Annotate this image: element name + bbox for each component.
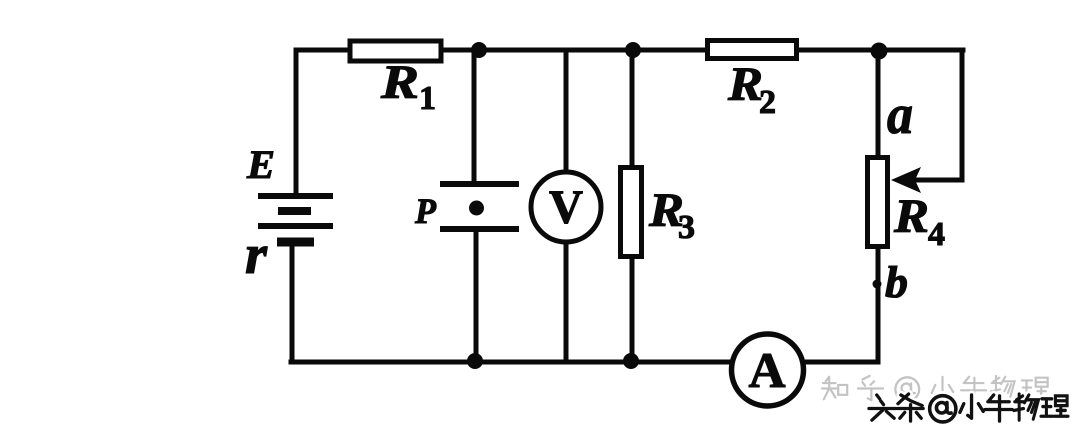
node top after R1	[471, 42, 487, 58]
svg-text:r: r	[245, 224, 268, 286]
svg-text:V: V	[549, 181, 583, 234]
wire capacitor branch upper	[472, 50, 477, 181]
capacitor P plates	[440, 184, 519, 229]
watermark gray: 知乎 @小牛物理	[822, 376, 1049, 401]
node b dot	[873, 280, 882, 289]
svg-text:R: R	[893, 190, 929, 243]
rheostat wiper arrowhead	[891, 167, 921, 193]
voltmeter V	[531, 172, 601, 242]
svg-text:A: A	[749, 342, 786, 398]
watermark black: 头条 @小牛物理	[869, 394, 1068, 422]
resistor R4 (rheostat track)	[868, 158, 888, 247]
node top right corner	[871, 43, 888, 60]
wire left vertical from top bus to battery	[294, 50, 299, 193]
wire R3 branch	[630, 50, 635, 362]
svg-text:a: a	[887, 84, 913, 146]
battery E,r (two cells)	[258, 196, 333, 242]
capacitor moving-plate dot	[469, 201, 484, 216]
resistor R2	[708, 41, 797, 59]
wire battery negative to bottom bus	[290, 244, 295, 362]
resistor R1	[350, 41, 441, 61]
ammeter A	[732, 334, 804, 406]
svg-text:P: P	[414, 191, 437, 231]
wire bottom bus right of ammeter	[805, 360, 878, 365]
resistor R3	[621, 168, 642, 257]
svg-text:E: E	[246, 142, 275, 187]
wire right loop to wiper	[917, 50, 962, 180]
svg-text:4: 4	[928, 216, 945, 253]
svg-text:R: R	[380, 56, 419, 109]
wire top bus	[296, 48, 963, 53]
node bottom capacitor branch	[467, 353, 483, 369]
wire bottom bus left of ammeter	[291, 360, 730, 365]
wire right branch through R4	[876, 50, 881, 362]
svg-text:2: 2	[759, 84, 776, 121]
svg-text:3: 3	[678, 209, 695, 246]
svg-text:b: b	[885, 258, 908, 307]
wire voltmeter branch	[564, 50, 569, 362]
node top at R3 branch	[625, 42, 641, 58]
svg-text:R: R	[727, 58, 763, 111]
svg-text:1: 1	[419, 80, 436, 117]
wire capacitor branch lower	[474, 231, 479, 362]
node bottom R3 branch	[623, 353, 639, 369]
